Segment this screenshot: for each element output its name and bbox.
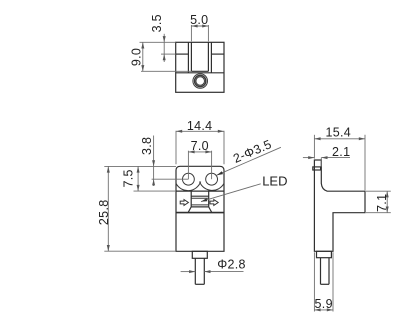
side cable left edge bbox=[320, 258, 322, 285]
dimension 15.4 extension lines bbox=[313, 135, 315, 159]
mounting hole left bbox=[183, 173, 195, 185]
svg-text:2-Φ3.5: 2-Φ3.5 bbox=[231, 137, 274, 166]
cable end bbox=[195, 283, 204, 285]
svg-text:3.8: 3.8 bbox=[140, 137, 154, 155]
led window inner line top bbox=[191, 197, 209, 199]
dimension 25.8 bottom extension line bbox=[104, 250, 176, 252]
cable left edge bbox=[194, 258, 196, 284]
dimension 5.9 line bbox=[314, 309, 333, 311]
right arm step line bbox=[211, 53, 224, 55]
left chamfer bbox=[188, 207, 191, 213]
svg-text:3.5: 3.5 bbox=[150, 14, 164, 32]
top view outer body bbox=[176, 42, 224, 92]
dimension 7.0 extension lines bbox=[187, 151, 189, 180]
slot right wall bbox=[207, 42, 209, 71]
svg-text:2.1: 2.1 bbox=[332, 145, 350, 159]
dimension 7.1 line bbox=[386, 191, 388, 213]
dimension 9.0 line bbox=[142, 42, 144, 71]
label LED leader bbox=[201, 184, 261, 202]
dimension 7.5 line bbox=[137, 166, 139, 191]
led recess top line bbox=[191, 195, 209, 197]
dimension PHI2.8 line right bbox=[204, 271, 243, 273]
led recess bottom line bbox=[191, 206, 209, 208]
svg-text:25.8: 25.8 bbox=[97, 200, 111, 226]
left arm step line bbox=[176, 53, 189, 55]
dimension 9.0 lower extension line bbox=[141, 70, 191, 72]
cable bushing inner circle bbox=[196, 77, 205, 86]
right arm inner wall line bbox=[210, 42, 212, 73]
left arm inner wall line bbox=[187, 42, 189, 73]
front face step bbox=[313, 167, 321, 170]
svg-text:7.5: 7.5 bbox=[122, 169, 136, 187]
counterbore arc left bbox=[176, 182, 201, 191]
svg-text:7.1: 7.1 bbox=[375, 194, 389, 212]
body step line bbox=[176, 72, 224, 74]
band bottom line bbox=[176, 212, 224, 214]
dimension 2.1 line right bbox=[321, 157, 350, 159]
cable bushing ring bbox=[195, 75, 206, 86]
right chamfer bbox=[209, 207, 212, 213]
led recess left wall bbox=[190, 191, 192, 207]
left side shared extension line bbox=[104, 165, 176, 167]
dimension 3.8 extension line bbox=[152, 178, 189, 180]
cable bushing outer circle bbox=[193, 74, 208, 89]
dimension 5.0 line bbox=[191, 25, 208, 27]
svg-text:15.4: 15.4 bbox=[326, 126, 352, 140]
slot floor bbox=[191, 70, 208, 72]
dimension 5.9 extension lines bbox=[313, 252, 315, 311]
dimension 15.4 line bbox=[314, 138, 365, 140]
dimension PHI2.8 line left bbox=[181, 271, 196, 273]
dimension 7.1 extension lines bbox=[366, 190, 391, 192]
svg-text:14.4: 14.4 bbox=[187, 119, 213, 133]
svg-text:9.0: 9.0 bbox=[129, 48, 143, 66]
side profile outline bbox=[314, 160, 365, 251]
led window inner line bottom bbox=[191, 204, 209, 206]
dimension 3.5 lower extension line bbox=[161, 53, 176, 55]
dimension 3.5 line bbox=[163, 34, 165, 62]
slot left wall bbox=[190, 42, 192, 71]
dimension 9.0/3.5 top extension line bbox=[140, 41, 176, 43]
side cable right edge bbox=[328, 258, 330, 285]
label 2-PHI3.5 leader bbox=[217, 147, 281, 175]
optical axis arrow left bbox=[180, 200, 188, 206]
cable bushing stub bbox=[192, 251, 207, 258]
cable right edge bbox=[203, 258, 205, 284]
dimension 25.8 line bbox=[107, 166, 109, 251]
led recess right wall bbox=[208, 191, 210, 207]
side cable end bbox=[321, 283, 330, 285]
optical axis arrow right bbox=[210, 200, 218, 206]
svg-text:LED: LED bbox=[262, 174, 287, 189]
svg-text:5.0: 5.0 bbox=[190, 13, 208, 27]
dimension 5.0 extension lines bbox=[190, 25, 192, 41]
svg-text:7.0: 7.0 bbox=[191, 139, 209, 153]
head/body parting line bbox=[176, 190, 224, 192]
dimension 7.5 extension line bbox=[134, 190, 177, 192]
svg-text:5.9: 5.9 bbox=[315, 297, 333, 311]
dimension 7.0 line bbox=[188, 151, 211, 153]
mounting hole right bbox=[206, 173, 218, 185]
dimension 14.4 line bbox=[176, 130, 224, 132]
front body outline bbox=[176, 166, 224, 251]
svg-text:Φ2.8: Φ2.8 bbox=[217, 257, 246, 271]
side cable stub bbox=[317, 251, 332, 257]
dimension 2.1 line left bbox=[303, 157, 315, 159]
dimension 3.8 line bbox=[153, 136, 155, 187]
counterbore arc right bbox=[200, 182, 225, 191]
dimension 2.1 extension line bbox=[320, 158, 322, 167]
dimension 14.4 extension lines bbox=[175, 131, 177, 165]
